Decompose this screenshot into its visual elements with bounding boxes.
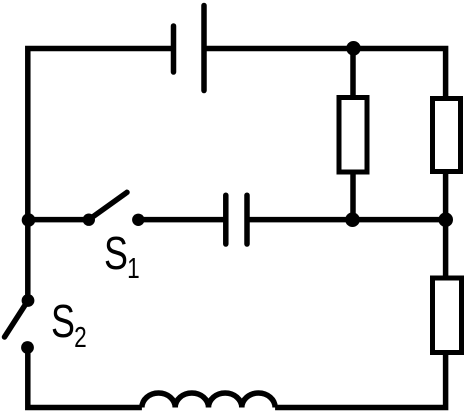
switch S2 blade — [5, 301, 29, 338]
node A: middle-left junction — [345, 212, 360, 227]
capacitor C1 left plate — [223, 195, 229, 244]
wire: branch from top junction down to R1 — [350, 49, 356, 96]
wire: S1 contact to capacitor — [138, 217, 224, 223]
battery B1 short plate — [171, 26, 177, 72]
switch S1 blade — [89, 192, 127, 219]
battery B1 long plate — [201, 6, 207, 91]
node: left rail junction — [22, 213, 36, 227]
capacitor C1 right plate — [244, 195, 250, 244]
switch S1 contact dot — [132, 214, 144, 226]
wire: capacitor to node A — [249, 217, 353, 223]
node: top junction — [346, 41, 361, 56]
resistor R1 — [339, 98, 367, 173]
wire: middle rail from left rail to S1 pivot — [28, 217, 89, 223]
switch S2 pivot dot — [22, 294, 35, 307]
resistor R2 — [433, 99, 461, 172]
switch S1 pivot dot — [83, 214, 95, 226]
wire: top rail right of battery + right rail down to R2 — [205, 49, 446, 97]
label S2 — [51, 294, 87, 355]
switch S2 contact dot — [21, 341, 34, 354]
wire: S2 contact down + bottom rail to inductor — [28, 348, 142, 408]
resistor R3 — [433, 278, 462, 353]
inductor L1 — [142, 393, 275, 408]
wire: top rail left + left rail down to S2 pivot — [28, 49, 173, 301]
wire: middle rail between node A and node B — [353, 217, 446, 223]
node B: middle-right junction — [438, 212, 453, 227]
wire: R1 bottom to middle rail — [350, 175, 356, 220]
wire: R2 bottom down through node B to R3 top — [443, 174, 449, 276]
label S1 — [104, 226, 140, 286]
wire: bottom rail right + right rail up to R3 — [275, 355, 446, 408]
